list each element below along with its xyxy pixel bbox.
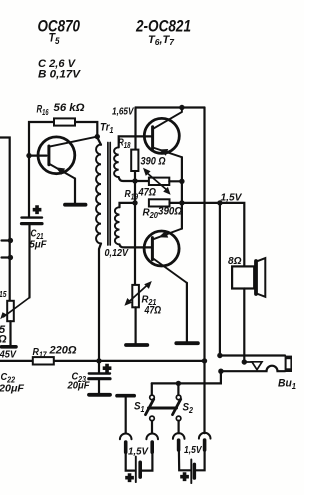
wire R16 right leg xyxy=(75,122,97,137)
wire R16 left leg xyxy=(29,122,54,156)
switch coupling bar xyxy=(149,407,177,410)
svg-text:R15: R15 xyxy=(0,286,7,300)
ground (R21) xyxy=(126,343,147,347)
wire bottom rail xyxy=(0,360,205,362)
svg-text:S1: S1 xyxy=(134,401,145,415)
wire jack tip feed xyxy=(219,203,221,356)
transformer Tr1 core xyxy=(107,143,109,246)
ground (R15) xyxy=(2,345,17,349)
svg-text:47Ω: 47Ω xyxy=(138,187,157,199)
svg-text:0,12V: 0,12V xyxy=(105,248,130,259)
svg-text:2-OC821: 2-OC821 xyxy=(135,18,191,36)
svg-text:5μF: 5μF xyxy=(30,239,48,251)
wire switch rail xyxy=(152,371,221,383)
wire R21 to ground xyxy=(135,307,137,343)
wire T7 collector down xyxy=(186,283,188,341)
transistor T7 xyxy=(144,231,179,266)
ground (C23) xyxy=(89,393,110,397)
wire rail corner down to battery (-3V) xyxy=(203,108,205,434)
node rail to -3V vertical xyxy=(202,358,207,363)
node jack sleeve corner xyxy=(218,369,223,374)
svg-text:390 Ω: 390 Ω xyxy=(141,156,166,168)
node R19 right / emitter bus xyxy=(179,179,184,184)
capacitor C21 xyxy=(28,156,30,217)
jack socket Bu1 xyxy=(285,356,292,372)
wire jack lower (sleeve) with spring arc xyxy=(221,366,285,372)
ground (T5 emitter) xyxy=(65,203,86,207)
resistor R20 xyxy=(149,199,170,206)
wire emitter bus xyxy=(181,157,183,228)
svg-text:R20: R20 xyxy=(143,207,159,221)
wire secondary upper bottom lead xyxy=(119,177,135,181)
wire bias column xyxy=(134,181,136,285)
battery B1 cell xyxy=(126,452,135,470)
battery B1 contact right xyxy=(151,421,153,434)
svg-text:1,5V: 1,5V xyxy=(128,447,149,458)
svg-text:47Ω: 47Ω xyxy=(144,305,162,317)
svg-text:Bu1: Bu1 xyxy=(278,378,297,392)
battery B2 cell xyxy=(179,450,190,470)
svg-text:0,45V: 0,45V xyxy=(0,350,17,361)
thermistor R21 xyxy=(132,285,139,307)
svg-text:Ω: Ω xyxy=(0,334,7,346)
jack break contact triangle xyxy=(244,362,262,370)
svg-text:1,5V: 1,5V xyxy=(221,193,243,204)
switch S2 xyxy=(177,383,179,395)
resistor R17 xyxy=(33,357,54,364)
node input stub A xyxy=(2,239,11,241)
wire top supply rail xyxy=(136,106,205,108)
potentiometer R15 xyxy=(7,301,14,321)
svg-text:+: + xyxy=(126,470,134,485)
resistor R19 (thermistor) xyxy=(135,180,149,182)
resistor R18 xyxy=(131,150,138,171)
node jack tip corner xyxy=(217,353,222,358)
svg-text:220Ω: 220Ω xyxy=(48,345,76,357)
svg-text:Tr1: Tr1 xyxy=(100,122,114,136)
svg-text:1,65V: 1,65V xyxy=(112,107,135,118)
battery B2 contact left xyxy=(178,421,180,434)
svg-text:R17: R17 xyxy=(33,346,47,360)
transformer Tr1 primary xyxy=(96,145,101,244)
svg-text:T6,T7: T6,T7 xyxy=(148,34,175,47)
svg-text:B 0,17V: B 0,17V xyxy=(38,68,82,80)
svg-text:S2: S2 xyxy=(183,402,194,416)
wiper arrow R15 xyxy=(4,298,30,317)
svg-text:R19: R19 xyxy=(125,188,139,202)
svg-text:+: + xyxy=(33,202,41,217)
wire R18 bottom xyxy=(134,171,136,181)
node R20 right / emitter bus xyxy=(179,200,184,205)
svg-text:OC870: OC870 xyxy=(38,18,81,36)
transistor T6 xyxy=(144,118,179,153)
wire 1.5V row xyxy=(182,203,244,267)
switch S1 xyxy=(151,383,153,395)
wire pot to ground xyxy=(9,321,11,345)
svg-text:+: + xyxy=(181,469,189,484)
svg-text:56 kΩ: 56 kΩ xyxy=(54,102,85,114)
transformer Tr1 secondary lower xyxy=(115,207,120,244)
svg-text:390Ω: 390Ω xyxy=(158,206,182,218)
node bias A xyxy=(132,178,137,183)
node T6 collector on rail xyxy=(179,105,184,110)
ground (T7 collector) xyxy=(176,341,198,345)
speaker 8ohm xyxy=(232,266,254,288)
wire jack upper (tip) xyxy=(220,354,285,356)
node speaker / jack contact xyxy=(242,359,247,364)
node 1.5V to jack xyxy=(217,200,222,205)
wire input top hook xyxy=(0,138,10,301)
capacitor C23 xyxy=(98,361,100,373)
wire T5 base xyxy=(29,155,47,157)
wire secondary lower top lead xyxy=(120,203,136,207)
transformer Tr1 secondary upper xyxy=(114,147,119,177)
battery B2 contact right xyxy=(199,433,211,439)
wire rail to R18 xyxy=(134,108,136,150)
svg-text:+: + xyxy=(103,361,111,376)
battery B1 contact left xyxy=(125,398,127,434)
svg-text:R18: R18 xyxy=(118,137,131,151)
node input stub B xyxy=(2,256,11,258)
wire secondary upper top lead / T6 base xyxy=(119,136,152,147)
ground (battery 1) xyxy=(117,394,134,398)
svg-text:1,5V: 1,5V xyxy=(184,445,203,456)
wire primary bottom lead xyxy=(99,244,101,361)
svg-text:8Ω: 8Ω xyxy=(228,255,242,267)
svg-text:20μF: 20μF xyxy=(67,380,90,392)
wire T5 emitter down xyxy=(74,179,76,204)
wire secondary lower bottom lead / T7 base xyxy=(120,244,151,247)
resistor R16 xyxy=(54,118,75,125)
node collector/R16/primary xyxy=(95,134,100,139)
svg-text:20μF: 20μF xyxy=(0,383,25,395)
node T5 base junction xyxy=(26,153,31,158)
transistor T5 xyxy=(38,137,75,174)
node bias B xyxy=(132,200,137,205)
wire primary top lead xyxy=(97,138,101,145)
wire speaker bottom xyxy=(243,289,245,363)
node C23/primary junction xyxy=(96,358,101,363)
svg-text:R16: R16 xyxy=(37,104,49,118)
node S2 top xyxy=(176,381,181,386)
